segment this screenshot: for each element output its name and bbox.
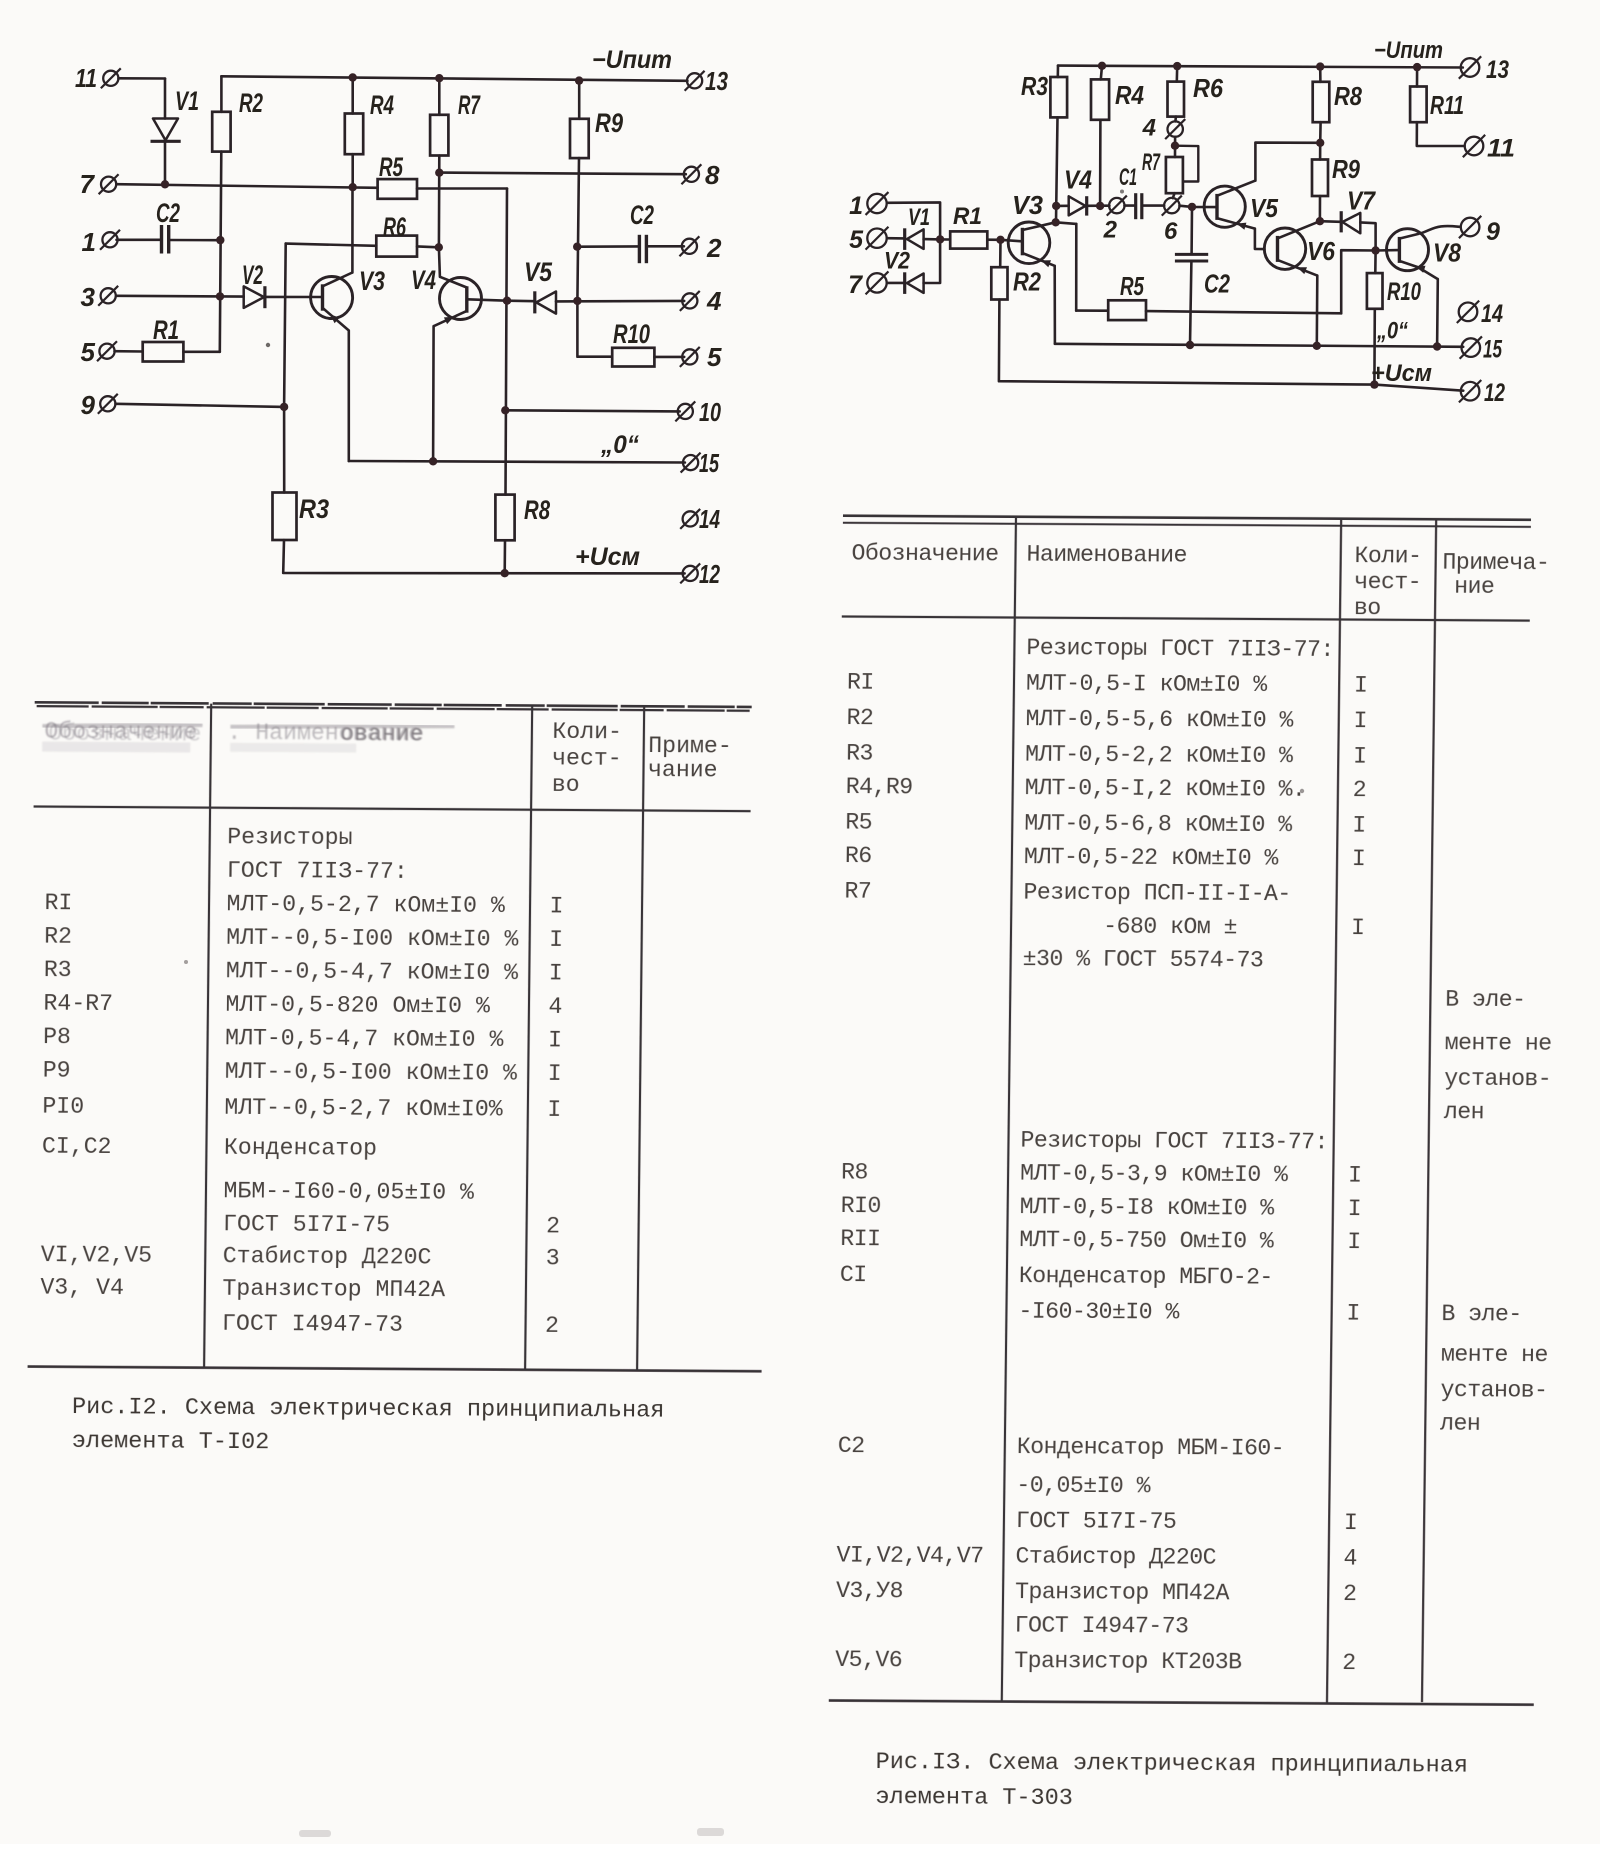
wire V5 to terminal 4	[556, 300, 684, 303]
svg-text:R3: R3	[44, 957, 72, 983]
header smudge strikes	[42, 724, 454, 730]
resistor R8 right body	[1313, 82, 1330, 122]
svg-text:I: I	[549, 893, 563, 919]
diode V2	[244, 286, 265, 308]
resistor R5 right body	[1108, 300, 1146, 320]
resistor R5 body	[378, 179, 417, 199]
svg-text:14: 14	[699, 504, 720, 534]
junction	[501, 406, 509, 414]
wire V2 to input node	[924, 239, 941, 283]
terminal 12 right	[1459, 380, 1481, 402]
svg-text:R11: R11	[1430, 90, 1464, 120]
svg-text:Транзистор КТ203В: Транзистор КТ203В	[1014, 1648, 1242, 1675]
junction	[575, 76, 583, 84]
wire C2 bottom lead	[1190, 261, 1191, 345]
resistor R2 body	[212, 112, 230, 152]
table row right лен	[1440, 1411, 1480, 1437]
svg-text:R8: R8	[1334, 81, 1362, 111]
table row right -I60-30±I0 %	[1018, 1299, 1522, 1328]
wire node 0 row 15	[349, 461, 685, 463]
wire terminal 1 lead	[117, 239, 161, 242]
diode V2 right	[905, 272, 924, 294]
resistor R6 body	[376, 236, 417, 257]
table header separator right	[842, 617, 1530, 621]
table row right Стабистор Д220С	[836, 1543, 1357, 1572]
svg-text:R3: R3	[1021, 71, 1048, 101]
svg-text:МБМ--I60-0,05±I0 %: МБМ--I60-0,05±I0 %	[223, 1178, 474, 1206]
transistor V5 internals	[1217, 181, 1255, 230]
svg-text:-680 кОм ±: -680 кОм ±	[1023, 913, 1237, 940]
svg-text:R6: R6	[383, 212, 407, 242]
wire R8 bottom lead	[503, 540, 506, 573]
wire R5 right run	[1146, 311, 1341, 313]
svg-text:В эле-: В эле-	[1441, 1301, 1522, 1327]
svg-text:чест-: чест-	[1354, 569, 1421, 595]
wire R3 bottom column	[1056, 117, 1058, 222]
svg-text:Транзистор МП42А: Транзистор МП42А	[222, 1276, 445, 1303]
svg-text:R4-R7: R4-R7	[43, 991, 113, 1017]
junction	[936, 235, 944, 243]
table row right Транзистор КТ203В	[835, 1647, 1356, 1676]
svg-text:V3: V3	[1012, 190, 1044, 220]
svg-text:RI0: RI0	[841, 1193, 881, 1219]
wire R4 top lead	[351, 77, 354, 113]
svg-text:8: 8	[705, 160, 720, 190]
wire C2 top lead	[1190, 207, 1193, 253]
table row МЛТ-0,5-4,7 кОм±I0 %	[43, 1024, 562, 1053]
svg-text:2: 2	[1103, 217, 1118, 244]
svg-text:+Uсм: +Uсм	[1371, 360, 1432, 387]
svg-text:МЛТ-0,5-22 кОм±I0 %: МЛТ-0,5-22 кОм±I0 %	[1024, 844, 1279, 872]
wire node A to V4	[1056, 205, 1069, 208]
wire R10 bottom lead	[1373, 309, 1376, 385]
svg-text:чание: чание	[648, 757, 718, 783]
wire R4 bottom lead	[351, 154, 354, 187]
transistor V3 right	[1008, 222, 1050, 264]
wire V1 anode lead	[164, 79, 167, 119]
junction	[503, 297, 511, 305]
wire R5 left column	[1075, 224, 1078, 311]
table row right МЛТ-0,5-6,8 кОм±I0 %	[845, 810, 1366, 839]
svg-text:2: 2	[546, 1213, 560, 1239]
svg-text:3: 3	[81, 282, 96, 312]
wire V4 emitter column	[432, 326, 435, 461]
svg-text:RI: RI	[44, 890, 72, 916]
transistor V8 internals	[1399, 234, 1437, 279]
table row right установ-	[1440, 1377, 1547, 1404]
svg-text:6: 6	[1164, 218, 1178, 245]
test point 4	[1165, 119, 1185, 139]
svg-text:I: I	[1353, 744, 1367, 770]
table row Резисторы	[227, 824, 353, 851]
junction	[349, 73, 357, 81]
terminal 9	[98, 394, 118, 414]
svg-text:Конденсатор МБМ-I60-: Конденсатор МБМ-I60-	[1017, 1434, 1285, 1462]
svg-text:Наименование: Наименование	[1026, 542, 1187, 569]
wire V4 to test point 2	[1087, 204, 1110, 207]
resistor R7 body	[430, 115, 448, 156]
svg-text:Транзистор МП42А: Транзистор МП42А	[1015, 1579, 1230, 1606]
resistor R2 right body	[991, 267, 1007, 299]
svg-text:МЛТ--0,5-2,7 кОм±I0%: МЛТ--0,5-2,7 кОм±I0%	[224, 1095, 503, 1123]
table row МЛТ--0,5-I00 кОм±I0 %	[44, 924, 563, 953]
svg-text:„0“: „0“	[600, 431, 639, 459]
svg-text:ние: ние	[1454, 574, 1494, 600]
wire R3 top lead	[283, 407, 286, 493]
svg-text:Стабистор Д220С: Стабистор Д220С	[223, 1243, 432, 1270]
svg-text:I: I	[1351, 915, 1365, 941]
junction	[1316, 217, 1324, 225]
table column line 1	[204, 704, 211, 1368]
table column line 2 right	[1327, 519, 1341, 1704]
svg-text:2: 2	[1343, 1581, 1357, 1607]
wire R6 right lead	[417, 245, 439, 249]
svg-text:R1: R1	[953, 203, 982, 230]
svg-text:I: I	[548, 1061, 562, 1087]
wire node B to V5	[507, 299, 535, 302]
svg-text:R2: R2	[44, 924, 72, 950]
svg-text:Резисторы ГОСТ 7IIЗ-77:: Резисторы ГОСТ 7IIЗ-77:	[1020, 1128, 1328, 1156]
svg-text:−Uпит: −Uпит	[592, 46, 672, 74]
wire V1 to input node	[924, 238, 941, 241]
svg-text:5: 5	[81, 337, 96, 367]
resistor R1 right body	[950, 231, 987, 248]
svg-text:C2: C2	[156, 198, 180, 228]
svg-text:13: 13	[1486, 56, 1509, 84]
table row right ±30 % ГОСТ 5574-73	[1023, 946, 1264, 973]
transistor V8	[1387, 229, 1429, 271]
svg-text:R7: R7	[1142, 149, 1161, 176]
svg-text:R7: R7	[844, 879, 871, 905]
svg-text:-I60-30±I0 %: -I60-30±I0 %	[1018, 1299, 1179, 1326]
wire node 0 row right	[1055, 344, 1463, 347]
terminal 8	[681, 164, 701, 184]
svg-text:Рис.IЗ. Схема электрическая пр: Рис.IЗ. Схема электрическая принципиальн…	[876, 1749, 1468, 1780]
table row right установ-	[1444, 1066, 1551, 1093]
caption figure 12	[72, 1394, 665, 1459]
svg-text:5: 5	[707, 342, 722, 372]
svg-text:V5: V5	[524, 257, 553, 287]
table row Конденсатор	[42, 1134, 377, 1162]
wire node 8 row	[439, 173, 686, 175]
wire R7 bottom column	[438, 156, 441, 248]
wire R7 wiper loop	[1175, 146, 1198, 182]
table row right МЛТ-0,5-2,2 кОм±I0 %	[846, 741, 1367, 770]
svg-text:I: I	[1354, 673, 1368, 699]
svg-text:ГОСТ I4947-73: ГОСТ I4947-73	[222, 1311, 403, 1338]
wire R2 top lead	[220, 76, 223, 112]
svg-text:15: 15	[699, 448, 719, 478]
junction	[1098, 62, 1106, 70]
resistor R9 body	[570, 119, 589, 158]
svg-text:элемента Т-303: элемента Т-303	[875, 1784, 1073, 1812]
table row МЛТ--0,5-4,7 кОм±I0 %	[44, 957, 563, 986]
svg-text:I: I	[1352, 846, 1366, 872]
test point 6	[1162, 196, 1182, 216]
terminal 3	[98, 286, 118, 306]
wire R9 bottom lead	[1319, 196, 1322, 221]
svg-text:V6: V6	[1307, 236, 1335, 266]
header Naimenovanie smudged	[227, 720, 424, 753]
junction	[501, 569, 509, 577]
wire C2 to terminal 2	[646, 245, 684, 248]
terminal 15	[681, 453, 701, 473]
table top border right	[843, 516, 1531, 527]
wire collector jog to R5 column	[1056, 222, 1077, 224]
junction	[1186, 341, 1194, 349]
resistor R3 body	[273, 493, 297, 541]
junction	[280, 403, 288, 411]
wire node 6 to V5 base	[1180, 206, 1217, 207]
table row МЛТ-0,5-820 Ом±I0 %	[43, 991, 562, 1020]
wire R7 bottom lead	[1173, 193, 1175, 198]
svg-text:R5: R5	[379, 152, 404, 182]
junction	[161, 180, 169, 188]
svg-text:RII: RII	[840, 1226, 880, 1252]
table row МЛТ--0,5-I00 кОм±I0 %	[43, 1058, 562, 1087]
terminal 10	[675, 401, 695, 421]
svg-text:V4: V4	[1064, 165, 1092, 195]
svg-text:МЛТ-0,5-5,6 кОм±I0 %: МЛТ-0,5-5,6 кОм±I0 %	[1025, 706, 1293, 734]
svg-text:-0,05±I0 %: -0,05±I0 %	[1016, 1473, 1151, 1500]
svg-text:VI,V2,V5: VI,V2,V5	[41, 1242, 153, 1269]
wire R5 left lead	[1076, 309, 1108, 312]
svg-text:R10: R10	[1387, 278, 1421, 306]
svg-text:во: во	[552, 772, 580, 798]
svg-text:МЛТ-0,5-820 Ом±I0 %: МЛТ-0,5-820 Ом±I0 %	[225, 992, 490, 1020]
terminal 14 right	[1457, 301, 1479, 323]
svg-text:R2: R2	[239, 88, 263, 118]
junction	[1052, 218, 1060, 226]
svg-text:C2: C2	[1204, 269, 1230, 299]
table row right Конденсатор МБГО-2-	[840, 1262, 1273, 1291]
terminal 15 right	[1460, 336, 1482, 358]
terminal 13 right	[1459, 56, 1481, 78]
svg-text:во: во	[1354, 595, 1381, 621]
svg-text:Резистор ПСП-II-I-А-: Резистор ПСП-II-I-А-	[1023, 880, 1291, 908]
svg-text:14: 14	[1481, 300, 1503, 328]
svg-text:V5,V6: V5,V6	[835, 1647, 902, 1673]
svg-text:элемента Т-I02: элемента Т-I02	[72, 1428, 270, 1456]
svg-text:Конденсатор: Конденсатор	[224, 1135, 377, 1162]
caption figure 13	[875, 1749, 1468, 1815]
svg-text:R6: R6	[1193, 73, 1223, 103]
wire R5 riser to V8 base node	[1341, 250, 1375, 313]
svg-text:МЛТ-0,5-3,9 кОм±I0 %: МЛТ-0,5-3,9 кОм±I0 %	[1020, 1161, 1288, 1189]
table row ГОСТ 5I7I-75	[223, 1211, 560, 1239]
table column line 3 right	[1422, 519, 1436, 1702]
svg-text:R8: R8	[524, 495, 550, 525]
svg-text:VI,V2,V4,V7: VI,V2,V4,V7	[836, 1543, 983, 1570]
resistor R7 right body	[1166, 157, 1183, 193]
svg-text:МЛТ--0,5-I00 кОм±I0 %: МЛТ--0,5-I00 кОм±I0 %	[226, 925, 519, 953]
wire C2 to R2 column	[169, 239, 221, 242]
wire V8 collector to terminal 9	[1419, 226, 1461, 234]
wire R11 top lead	[1416, 67, 1419, 86]
wire R5 to V4 base column	[417, 187, 507, 190]
table row right Резистор ПСП-II-I-А-	[844, 879, 1291, 908]
svg-text:V7: V7	[1347, 186, 1376, 216]
terminal 5 right	[680, 347, 700, 367]
diode V7	[1341, 211, 1360, 233]
header Oboznachenie smudged	[42, 719, 201, 753]
svg-text:МЛТ-0,5-I кОм±I0 %: МЛТ-0,5-I кОм±I0 %	[1026, 671, 1268, 698]
table row right МЛТ-0,5-5,6 кОм±I0 %	[846, 705, 1367, 734]
terminal 7	[99, 174, 119, 194]
svg-text:7: 7	[848, 271, 863, 299]
table row right МЛТ-0,5-I кОм±I0 %	[847, 670, 1368, 699]
wire V3 base lead	[1001, 240, 1022, 242]
svg-text:5: 5	[849, 226, 864, 254]
svg-text:МЛТ-0,5-6,8 кОм±I0 %: МЛТ-0,5-6,8 кОм±I0 %	[1024, 811, 1292, 839]
svg-text:V3: V3	[359, 266, 385, 296]
capacitor C2 right	[639, 235, 646, 263]
wire terminal 7 lead right	[887, 282, 905, 285]
svg-text:R4,R9: R4,R9	[846, 774, 913, 800]
svg-text:11: 11	[1487, 135, 1515, 163]
junction	[1371, 246, 1379, 254]
wire R2 top lead	[999, 240, 1002, 267]
wire R6 to test point 4	[1174, 117, 1177, 122]
svg-text:V1: V1	[175, 86, 199, 116]
junction	[435, 243, 443, 251]
svg-text:2: 2	[1342, 1650, 1356, 1676]
table row right ГОСТ 5I7I-75	[1016, 1508, 1358, 1536]
wire R1 left lead	[940, 238, 950, 241]
table row right МЛТ-0,5-22 кОм±I0 %	[845, 843, 1366, 872]
table row right Конденсатор МБМ-I60-	[838, 1433, 1285, 1462]
wire R9 top lead	[578, 81, 581, 119]
wire V2 to V3 base	[265, 296, 322, 299]
table row МЛТ-0,5-2,7 кОм±I0 %	[44, 890, 563, 919]
wire R10 top lead	[1374, 251, 1377, 274]
wire V3 collector column	[351, 187, 354, 272]
svg-text:15: 15	[1483, 336, 1503, 364]
table row right -0,05±I0 %	[1016, 1473, 1151, 1500]
resistor R9 right body	[1312, 160, 1328, 197]
table row right Резисторы ГОСТ 7IIЗ-77	[1026, 635, 1334, 663]
svg-text:C1: C1	[1119, 164, 1137, 191]
wire V6 emitter column	[1316, 276, 1319, 345]
svg-text:C2: C2	[630, 200, 654, 230]
svg-text:R9: R9	[1332, 154, 1360, 184]
wire V5 collector to R8 R9 node	[1255, 143, 1320, 181]
svg-text:V4: V4	[411, 265, 436, 295]
wire V5 emitter to V6 base	[1255, 229, 1265, 250]
table bottom border right	[829, 1701, 1534, 1705]
svg-text:Коли-: Коли-	[1354, 543, 1421, 569]
svg-text:МЛТ-0,5-2,2 кОм±I0 %: МЛТ-0,5-2,2 кОм±I0 %	[1025, 742, 1293, 770]
svg-text:R4: R4	[1115, 80, 1144, 110]
table row ГОСТ 7IIЗ-77:	[227, 858, 408, 885]
wire node 4 to R10	[577, 301, 612, 357]
diode V1 right	[905, 228, 924, 250]
terminal 5 input right	[866, 227, 889, 250]
svg-text:R2: R2	[1013, 267, 1041, 297]
svg-text:Конденсатор МБГО-2-: Конденсатор МБГО-2-	[1019, 1263, 1273, 1291]
table row Стабистор Д220С	[41, 1242, 560, 1271]
transistor V5	[1204, 186, 1245, 227]
svg-text:Примеча-: Примеча-	[1442, 550, 1549, 577]
junction	[216, 292, 224, 300]
wire test point 2 to C1	[1125, 204, 1135, 207]
table column line 2	[525, 706, 532, 1370]
svg-text:лен: лен	[1444, 1099, 1484, 1125]
wire R7 top lead	[438, 78, 441, 115]
svg-text:ГОСТ I4947-73: ГОСТ I4947-73	[1015, 1613, 1189, 1640]
wire V8 base lead	[1376, 249, 1399, 252]
svg-text:Приме-: Приме-	[648, 733, 732, 760]
wire R8 to R9	[1319, 122, 1322, 159]
junction	[1096, 202, 1104, 210]
svg-text:V2: V2	[242, 260, 263, 290]
svg-text:I: I	[1348, 1163, 1362, 1189]
terminal 14	[680, 509, 700, 529]
junction	[216, 236, 224, 244]
svg-text:2: 2	[706, 233, 722, 263]
svg-text:Коли-: Коли-	[552, 719, 622, 745]
terminal 11	[101, 68, 121, 88]
transistor V6	[1264, 228, 1305, 269]
junction	[429, 457, 437, 465]
svg-text:РI0: РI0	[42, 1094, 84, 1120]
svg-text:В эле-: В эле-	[1445, 987, 1526, 1013]
svg-text:ГОСТ 5I7I-75: ГОСТ 5I7I-75	[223, 1211, 390, 1238]
svg-text:V5: V5	[1250, 193, 1278, 223]
wire V4 base lead	[467, 299, 507, 300]
table column line 1 right	[1002, 517, 1016, 1702]
wire node 2 to C2 right	[577, 245, 638, 248]
resistor R6 right body	[1168, 82, 1185, 117]
resistor R1 body	[143, 342, 184, 362]
capacitor C1	[1136, 193, 1142, 219]
svg-text:менте не: менте не	[1441, 1342, 1548, 1369]
resistor R10 right body	[1367, 273, 1383, 309]
junction	[1433, 342, 1441, 350]
svg-text:−Uпит: −Uпит	[1374, 37, 1443, 64]
wire test point 4 to R7	[1174, 137, 1177, 157]
svg-text:R6: R6	[845, 843, 872, 869]
table column line 3	[637, 706, 644, 1370]
wire R8 top lead	[1319, 67, 1322, 82]
svg-text:„0“: „0“	[1376, 318, 1408, 345]
svg-text:12: 12	[699, 559, 720, 589]
table row right МЛТ-0,5-3,9 кОм±I0 %	[841, 1160, 1362, 1189]
table row right МЛТ-0,5-I,2 кОм±I0 %.	[846, 774, 1367, 803]
svg-text:V3, V4: V3, V4	[40, 1275, 124, 1302]
table row Транзистор МП42А	[40, 1275, 445, 1304]
svg-text:МЛТ-0,5-4,7 кОм±I0 %: МЛТ-0,5-4,7 кОм±I0 %	[225, 1025, 504, 1053]
svg-text:Обозначение: Обозначение	[851, 541, 998, 568]
svg-text:I: I	[547, 1097, 561, 1123]
junction	[1370, 380, 1378, 388]
svg-text:МЛТ--0,5-4,7 кОм±I0 %: МЛТ--0,5-4,7 кОм±I0 %	[226, 958, 519, 986]
table header separator	[34, 807, 751, 812]
wire vertical node B	[506, 189, 508, 495]
wire R3 top lead	[1057, 66, 1060, 77]
junction	[996, 236, 1004, 244]
svg-text:13: 13	[705, 66, 728, 96]
svg-text:V3,У8: V3,У8	[836, 1578, 903, 1604]
wire R11 to terminal 11	[1417, 122, 1465, 146]
terminal 4	[680, 291, 700, 311]
wire V7 to V8 base node	[1360, 222, 1375, 250]
svg-text:R10: R10	[613, 319, 650, 349]
svg-text:1: 1	[849, 192, 863, 220]
wire -Upit top rail right	[1058, 66, 1463, 68]
terminal 1 right	[866, 192, 889, 215]
wire R1 right lead	[987, 238, 1000, 241]
